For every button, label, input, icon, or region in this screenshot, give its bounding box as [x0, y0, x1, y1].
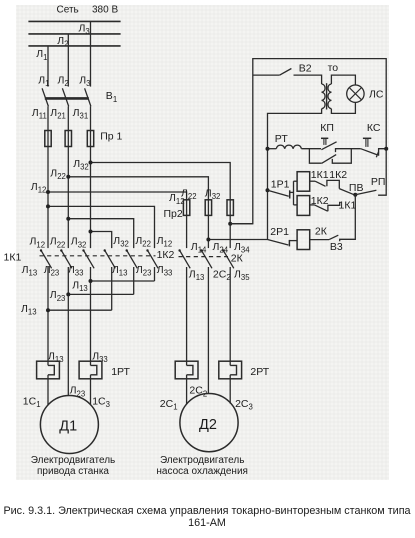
fuse Пр1 pole 1 [45, 131, 51, 147]
bus line L3 (top) [28, 20, 120, 22]
caption motor D1 [31, 455, 115, 477]
svg-text:1К1: 1К1 [339, 199, 357, 211]
holding contact blade [322, 155, 337, 164]
node label 2С2 (2K out) [213, 268, 231, 282]
contactor label 2К [231, 253, 244, 265]
node label Л11 [32, 107, 47, 121]
wire RT left [268, 148, 277, 150]
node label Л32 (1K2 in) [113, 235, 129, 249]
node label Л1 (drop) [38, 74, 49, 88]
svg-text:Пр 1: Пр 1 [100, 130, 122, 142]
svg-text:Рис. 9.3.1. Электрическая схем: Рис. 9.3.1. Электрическая схема управлен… [3, 505, 410, 517]
transformer label то [328, 62, 339, 74]
wire phase L3 drop [90, 21, 92, 86]
linkage dashed line 2K [179, 256, 229, 258]
relay label РП [371, 176, 386, 188]
node PV [353, 193, 357, 197]
wire coil 1K1 out [310, 180, 315, 182]
wire 2RT to motor 1 [186, 375, 188, 405]
coil label 2К [315, 225, 328, 237]
node label Л12 [31, 181, 47, 195]
wire column L34 [229, 200, 231, 248]
linkage dashed line 1K1-1K2 [40, 255, 156, 257]
wire column 1K2 out 2 [133, 267, 135, 294]
button KS fixed hook [379, 149, 387, 156]
node label Л33 (1RT) [92, 350, 108, 364]
node label Л23 (1K1 out) [44, 264, 60, 278]
node label Л13 (1RT) [48, 350, 64, 364]
node label Л13 (1K1 out) [22, 264, 38, 278]
terminal label 2С1 [160, 398, 178, 412]
thermal element 1RT phase 3 [79, 361, 102, 379]
transformer TO secondary winding [328, 84, 331, 109]
lamp ЛС [347, 85, 364, 102]
motor D1 circle [40, 396, 98, 454]
wire column L23 left [67, 267, 69, 396]
switch B3 blade [329, 235, 338, 239]
node label Л34 [234, 241, 250, 255]
button KS blade [361, 149, 379, 158]
wire 1RT to motor 3 [90, 375, 92, 405]
junction control tap upper [228, 222, 232, 226]
node label Л32 (1K1 in) [71, 236, 87, 250]
svg-text:В2: В2 [299, 63, 312, 75]
switch B1 pole 2 blade [62, 88, 68, 106]
svg-text:ЛС: ЛС [369, 88, 384, 100]
button KS actuator [363, 138, 371, 147]
node label Л22 (1K1 in) [50, 236, 66, 250]
contactor 2K contact 2 blade [200, 249, 212, 268]
contact 1K2 NC bridge [327, 180, 339, 188]
wire tap L32 to Pr2 [91, 163, 231, 200]
wire 2RT to motor 3 [229, 375, 231, 404]
contact 1R1 blade [268, 190, 290, 198]
svg-text:РТ: РТ [275, 133, 289, 145]
terminal label 2С3 [235, 398, 253, 412]
svg-text:Электродвигатель: Электродвигатель [160, 455, 244, 466]
contact 1K2 NC blade (branch A) [315, 181, 325, 186]
switch B1 pole 3 blade [85, 88, 91, 106]
button КП label [320, 122, 334, 134]
fuse Пр1 pole 3 [87, 131, 93, 147]
contact label 1К2 [329, 169, 347, 181]
wire coil 2K out [310, 239, 329, 241]
node label Л32 [73, 158, 89, 172]
node label Л13 (2K out) [189, 268, 205, 282]
switch B1 linkage bar [45, 97, 89, 100]
wire branch splitter [293, 181, 295, 205]
junction L12 [46, 190, 50, 194]
junction L22 lower [66, 217, 70, 221]
wire tap L22 to 1K2 group [68, 219, 133, 248]
wire secondary bottom [331, 102, 355, 113]
svg-text:161-АМ: 161-АМ [188, 517, 226, 529]
svg-text:РП: РП [371, 176, 386, 188]
fuse Пр1 pole 2 [65, 131, 71, 147]
contactor 2K contact 3 blade [222, 249, 234, 268]
junction KS rail [384, 147, 388, 151]
wire tap L22 to Pr2 [68, 177, 208, 200]
fuse Пр2 pole 1 [183, 200, 189, 216]
button KP blade [321, 142, 336, 150]
contact 2Р1 label [270, 226, 289, 238]
junction L32 [89, 161, 93, 165]
node label Л22 (1K2 in) [135, 235, 151, 249]
wire control phase tap lower [208, 239, 267, 241]
wire control phase tap upper [230, 223, 253, 225]
node label Л21 [50, 107, 66, 121]
node label Л3 (drop) [79, 74, 90, 88]
wire tap L32 to 1K2 group [91, 232, 112, 249]
figure caption [3, 505, 410, 529]
wire branch B in [294, 204, 298, 206]
wire V3 to PV node [340, 195, 356, 242]
coil 1К1 [297, 172, 310, 192]
switch label В3 [330, 241, 343, 253]
fuse Пр2 pole 3 [227, 200, 233, 216]
coil 2К [297, 230, 310, 250]
wire bridge to PV node [339, 189, 354, 195]
node label Л23 (crossover) [50, 289, 66, 303]
wire primary bottom to left rail [268, 109, 322, 240]
svg-text:насоса охлаждения: насоса охлаждения [156, 466, 248, 477]
terminal label 2С2 [189, 385, 207, 399]
node label Л22 (Pr2) [181, 187, 197, 201]
svg-text:В3: В3 [330, 241, 343, 253]
wire column 2K out 1 [186, 267, 188, 365]
contactor label 1К1 [4, 252, 22, 264]
transformer TO core [326, 83, 328, 109]
wire crossover L33 [91, 280, 155, 282]
wire secondary top to lamp [331, 75, 355, 85]
contactor 1K1 contact 1 blade [40, 249, 52, 268]
fuse Пр2 pole 2 [205, 200, 211, 216]
wire RT to KP [301, 148, 321, 150]
junction crossover L23 [66, 292, 70, 296]
contactor 2K contact 1 blade [178, 249, 190, 268]
lamp label ЛС [369, 88, 384, 100]
terminal label 1С3 [92, 396, 110, 410]
contact 1Р1 label [271, 179, 290, 191]
svg-text:Сеть: Сеть [57, 4, 79, 15]
wire phase L1 drop [47, 46, 49, 87]
wire 2R1 to coil [289, 240, 297, 242]
junction L12 lower [46, 204, 50, 208]
bus line L1 (bottom) [28, 45, 120, 47]
wire column L14 [186, 200, 188, 248]
wire branch A in [294, 180, 298, 182]
svg-text:Д2: Д2 [199, 417, 217, 433]
switch B2 wire left [253, 74, 280, 76]
thermal element 2RT phase 3 [219, 361, 242, 379]
svg-text:КП: КП [320, 122, 334, 134]
svg-text:1К1: 1К1 [311, 169, 329, 181]
bus line L2 [28, 33, 120, 35]
wire crossover L23 [68, 293, 133, 295]
node label Л35 (2K out) [234, 268, 250, 282]
node label Л23 (1K2 out) [136, 264, 152, 278]
node label Л12 (1K2 in) [157, 235, 173, 249]
contactor 1K2 contact 2 blade [126, 249, 138, 268]
caption motor D2 [156, 455, 248, 477]
switch B1 pole 1 blade [42, 88, 48, 106]
wire coil 1K2 out [310, 204, 315, 206]
relay coil RT winding [276, 145, 301, 149]
node label Л3 [79, 23, 90, 37]
node label Л32 (Pr2) [205, 187, 221, 201]
wire column L21 [67, 106, 69, 248]
scanned page background [16, 5, 389, 480]
wire phase L2 drop [67, 34, 69, 87]
svg-text:380 В: 380 В [92, 4, 118, 15]
svg-text:1Р1: 1Р1 [271, 179, 290, 191]
switch label В1 [106, 90, 117, 104]
wire column L11 [47, 106, 49, 248]
wire column 2K out 3 [229, 267, 231, 365]
node label Л22 [50, 167, 66, 181]
wire column L13 left [47, 267, 49, 365]
contact label 1К1 (branch B) [339, 199, 357, 211]
contact 1K1 NC fixed [328, 202, 340, 212]
node label Л33 (1K1 out) [68, 264, 84, 278]
wire crossover L13 [48, 309, 112, 311]
node label Л12 (Pr2) [169, 192, 185, 206]
node label Л33 (1K2 out) [157, 264, 173, 278]
transformer TO primary winding [322, 84, 325, 109]
wire column 1K2 out 1 [111, 267, 113, 310]
node label Л24 [213, 241, 229, 255]
svg-text:1К2: 1К2 [329, 169, 347, 181]
svg-text:2РТ: 2РТ [250, 366, 269, 378]
node label Л23 (motor) [70, 385, 86, 399]
motor label Д2 [199, 417, 217, 433]
thermal element 1RT phase 1 [37, 361, 60, 379]
junction control tap lower [206, 238, 210, 242]
wire column L31 [90, 106, 92, 248]
junction crossover L33 [89, 279, 93, 283]
switch label В2 [299, 63, 312, 75]
wire column 2K out 2 [207, 267, 209, 394]
node label Л1 [36, 48, 47, 62]
switch B2 blade [280, 69, 292, 76]
button KP actuator [321, 138, 328, 145]
svg-text:2К: 2К [315, 225, 328, 237]
node label Л13 (crossover) [72, 279, 88, 293]
wire 1R1 to branches [290, 191, 294, 193]
svg-text:Электродвигатель: Электродвигатель [31, 455, 115, 466]
node label Л13 (1K2 out) [112, 264, 128, 278]
contactor 1K2 contact 3 blade [146, 249, 158, 268]
svg-text:1К2: 1К2 [157, 249, 175, 261]
junction RT row [266, 147, 270, 151]
motor label Д1 [59, 419, 77, 435]
wire tap L12 to 1K2 group [48, 206, 155, 248]
wire KP right [336, 149, 361, 152]
svg-text:1К1: 1К1 [4, 252, 22, 264]
wire column L33 left [90, 267, 92, 365]
relay coil РТ label [275, 133, 289, 145]
switch PV blade [355, 190, 376, 195]
svg-text:ПВ: ПВ [349, 182, 364, 194]
motor D2 circle [180, 394, 238, 452]
coil 1К2 [297, 196, 310, 216]
coil label 1К1 [311, 169, 329, 181]
node label Л13 (crossover left) [21, 303, 37, 317]
wire column 1K2 out 3 [154, 267, 156, 281]
contactor 1K1 contact 3 blade [82, 249, 94, 268]
wire control top line [230, 59, 386, 224]
contactor label 1К2 [157, 249, 175, 261]
junction 1R1 [266, 188, 270, 192]
svg-text:1РТ: 1РТ [111, 366, 130, 378]
wire B2 to transformer [294, 75, 322, 84]
junction L32 lower [89, 230, 93, 234]
node label Л12 (1K1 in) [30, 236, 46, 250]
junction L22 [66, 175, 70, 179]
fuse label Пр2 [164, 208, 183, 220]
contactor 1K2 contact 1 blade [104, 249, 116, 268]
svg-text:КС: КС [367, 122, 381, 134]
junction crossover L13 [46, 308, 50, 312]
coil label 1К2 (branch B) [311, 195, 329, 207]
contact 2R1 blade [268, 240, 290, 247]
fuse label Пр 1 [100, 130, 122, 142]
thermal element 2RT phase 1 [175, 361, 198, 379]
thermal relay label 1РТ [111, 366, 130, 378]
node label Л31 [73, 107, 89, 121]
net label Сеть 380 В [57, 4, 119, 15]
node label Л2 (drop) [58, 74, 69, 88]
wire column L24 [207, 200, 209, 248]
node label Л2 [57, 35, 68, 49]
holding contact bypass [309, 149, 351, 164]
svg-text:2К: 2К [231, 253, 244, 265]
thermal relay label 2РТ [250, 366, 269, 378]
svg-text:то: то [328, 62, 339, 74]
node label Л14 [191, 241, 207, 255]
terminal label 1С1 [23, 396, 41, 410]
contact 1K1 NC blade (branch B) [315, 205, 328, 211]
wire 1RT to motor 1 [47, 375, 49, 406]
svg-text:Пр2: Пр2 [164, 208, 183, 220]
wire tap L12 to Pr2 [48, 192, 187, 200]
button КС label [367, 122, 381, 134]
svg-text:Д1: Д1 [59, 419, 77, 435]
svg-text:привода станка: привода станка [37, 466, 109, 477]
switch ПВ label [349, 182, 364, 194]
svg-text:2Р1: 2Р1 [270, 226, 289, 238]
contactor 1K1 contact 2 blade [60, 249, 72, 268]
